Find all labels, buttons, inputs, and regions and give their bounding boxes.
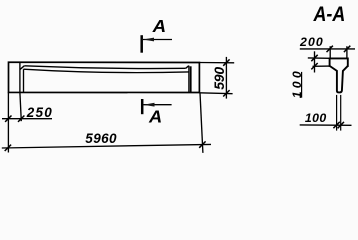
beam ledge inner vertical right V2 [190, 66, 192, 92]
tick [18, 116, 24, 122]
T-section flange and stem [330, 58, 348, 66]
tick [333, 122, 339, 128]
extension line 250 [20, 92, 21, 121]
dimension text 100 left underline [301, 72, 303, 98]
svg-text:5960: 5960 [85, 131, 117, 146]
tick [327, 46, 333, 52]
beam ledge upper edge H1 [24, 66, 185, 69]
extension line [329, 46, 331, 58]
svg-text:250: 250 [26, 105, 53, 120]
tick [338, 122, 344, 128]
tick [199, 141, 205, 147]
svg-text:590: 590 [211, 67, 227, 90]
section arrow bottom [144, 104, 172, 106]
tick [223, 59, 229, 65]
extension line flange top left [308, 57, 330, 59]
dimension line 590 [225, 57, 227, 99]
section cut line A top [140, 35, 143, 53]
stem continuation right edge [340, 95, 342, 131]
tick [311, 55, 317, 61]
tick [344, 46, 350, 52]
section cut line A bottom [141, 99, 144, 114]
beam ledge left chamfer [20, 66, 24, 70]
tick [311, 63, 317, 69]
beam ledge right chamfer [186, 66, 189, 69]
svg-text:А: А [148, 107, 162, 127]
dimension line 5960 [2, 144, 211, 148]
section arrow top [143, 39, 172, 41]
dimension line 200 (section) [300, 48, 355, 50]
extension line top right (590) [199, 62, 234, 64]
svg-text:А: А [152, 16, 167, 36]
tick [5, 116, 11, 122]
beam ledge inner vertical left V1 [19, 63, 21, 93]
extension line flange bottom left [313, 65, 331, 67]
stem continuation left edge [336, 95, 338, 131]
dimension line 100 left [314, 51, 316, 72]
svg-text:100: 100 [290, 71, 304, 98]
extension line left (250/5960) [7, 92, 9, 152]
svg-text:А-А: А-А [313, 2, 346, 26]
extension line [346, 46, 348, 58]
beam ledge lower edge H2 [24, 69, 189, 72]
tick [223, 90, 229, 96]
dimension line 100 bottom [300, 124, 352, 126]
beam ledge inner vertical right V1 [188, 66, 190, 93]
svg-text:200: 200 [299, 35, 324, 49]
extension line bottom right (590) [199, 92, 232, 95]
svg-text:100: 100 [305, 111, 327, 125]
tick [5, 145, 11, 151]
beam ledge inner vertical left V2 [23, 69, 25, 92]
dimension line 250 [2, 118, 52, 120]
extension line right (5960) [200, 93, 203, 153]
beam outline (elevation) [9, 62, 200, 92]
